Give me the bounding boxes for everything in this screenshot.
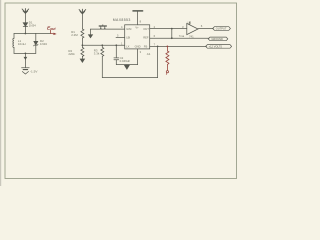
wire to battery (24, 59, 26, 67)
svg-text:V+: V+ (135, 26, 139, 30)
svg-text:GND: GND (135, 44, 141, 48)
antenna symbol (center, +E bus) (79, 9, 86, 14)
+E bus bar (133, 10, 143, 12)
red annotations (47, 25, 169, 74)
wire R1 to junction (81, 38, 83, 47)
label R2 220k (68, 49, 75, 56)
wire IC row3 stub (150, 45, 158, 47)
svg-text:MAX8553: MAX8553 (113, 18, 131, 22)
svg-text:OUTPUT: OUTPUT (216, 27, 227, 31)
svg-text:FB: FB (144, 44, 148, 48)
resistor R1 (81, 29, 84, 38)
label C2 value (120, 56, 131, 63)
scan edge shadow (0, 0, 1, 186)
wire loop right upper (35, 34, 37, 42)
wire loop left upper (13, 34, 15, 39)
svg-text:GROUND: GROUND (211, 37, 223, 41)
node B junction (25, 53, 27, 55)
wire IC out row1 to op-amp (150, 28, 187, 30)
IC U1 box (125, 25, 150, 49)
svg-text:Eout: Eout (47, 25, 56, 31)
red junction dot (167, 46, 169, 48)
svg-text:741: 741 (189, 34, 194, 38)
main rail wire (82, 44, 124, 46)
ground below battery (22, 72, 28, 75)
svg-text:7ma: 7ma (179, 34, 185, 38)
RL tail (165, 73, 168, 75)
svg-text:220k: 220k (68, 52, 75, 56)
wire row1-row2 vertical (171, 29, 173, 39)
svg-text:10mH: 10mH (18, 42, 26, 46)
svg-text:LBI: LBI (126, 35, 130, 39)
svg-text:+12 VOLTS: +12 VOLTS (209, 44, 223, 48)
IC pin numbers (117, 19, 156, 54)
pushbutton switch S1 (99, 25, 106, 30)
ground (switch) (90, 29, 92, 34)
wire loop right up (157, 46, 159, 77)
op-amp labels (182, 21, 203, 39)
series diode arrow (24, 57, 26, 59)
wire IC row2 stub (150, 37, 172, 39)
wire R2 to ground (81, 56, 83, 59)
label D1 1N34 (29, 20, 36, 27)
svg-text:A1: A1 (147, 52, 151, 56)
wire op-amp out to flag1 (198, 28, 213, 30)
IC top pin (137, 11, 139, 25)
svg-text:2.2M: 2.2M (71, 33, 78, 37)
page background (0, 0, 240, 186)
label L1 10mH (18, 39, 26, 46)
Eout tick (50, 30, 52, 33)
junction row1 (171, 28, 173, 30)
wire row2 to flag2 (172, 37, 209, 39)
antenna symbol (left, +E bus) (22, 9, 29, 14)
wire antenna to diode D1 (24, 13, 26, 23)
wire node B down (24, 53, 26, 57)
battery cell B1 (22, 68, 30, 70)
IC bottom pin (137, 49, 139, 65)
svg-text:1N34: 1N34 (40, 42, 47, 46)
svg-text:REF: REF (143, 35, 149, 39)
junction main rail (82, 44, 84, 46)
wire D1 to node A (24, 27, 26, 34)
label R1 2.2M (71, 30, 78, 37)
capacitor C2 (114, 58, 119, 60)
wire to IC gnd pin (116, 64, 137, 66)
capacitor C2 stem (115, 45, 117, 57)
wire loop left down (101, 56, 103, 77)
ground (C2 net) (125, 65, 130, 69)
svg-text:3.3k: 3.3k (94, 52, 100, 56)
wire loop right lower (35, 45, 37, 53)
wire loop bottom long (102, 77, 157, 79)
op-amp A2 (187, 22, 198, 35)
wire loop bottom (14, 52, 36, 54)
inductor L1 (13, 38, 14, 47)
diode D1 (23, 23, 27, 27)
node A junction (25, 33, 27, 35)
wire row3 to flag3 (158, 45, 207, 47)
flag +12 VOLTS (206, 44, 232, 48)
svg-text:LX: LX (126, 44, 129, 48)
svg-text:ILIM: ILIM (126, 27, 132, 31)
svg-text:-1.5V: -1.5V (30, 69, 38, 73)
label R3 3.3k (94, 49, 100, 56)
wire antenna to R1 (81, 13, 83, 29)
zener diode D2 (34, 41, 38, 46)
junction row3 (157, 46, 159, 48)
wire loop top (14, 33, 36, 35)
resistor R2 (81, 47, 84, 56)
svg-text:U2: U2 (188, 21, 192, 25)
flag GROUND (208, 37, 228, 41)
flag OUTPUT (213, 27, 231, 31)
wire C2 bottom (115, 60, 117, 65)
svg-text:OUT: OUT (143, 27, 149, 31)
resistor R3 3.3k (101, 45, 104, 56)
IC pin names (126, 26, 149, 49)
IC left pin stub row2 (NC) (116, 36, 125, 38)
load resistor RL (red) (166, 46, 169, 70)
ground (R2) (80, 59, 84, 62)
svg-text:0.049uF: 0.049uF (120, 59, 131, 63)
wire switch row (91, 28, 125, 30)
junction row2 (171, 37, 173, 39)
wire Eout (36, 33, 51, 35)
junction cap stem (115, 44, 117, 46)
border frame (5, 3, 237, 179)
junction loop-left (101, 44, 103, 46)
RL terminal circle (166, 71, 168, 73)
svg-text:1N34: 1N34 (29, 23, 36, 27)
Eout arrow (51, 33, 57, 35)
wire loop left lower (13, 48, 15, 54)
label D2 1N34 (40, 39, 47, 46)
